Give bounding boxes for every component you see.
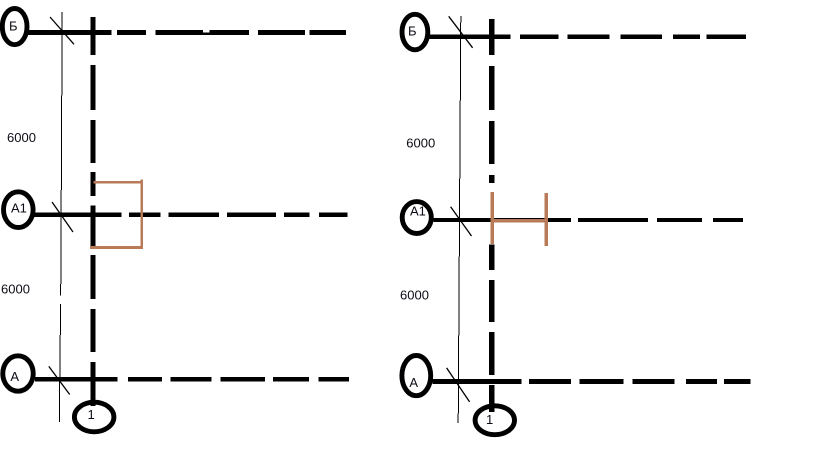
svg-text:А: А bbox=[10, 369, 19, 384]
svg-text:6000: 6000 bbox=[7, 130, 36, 145]
svg-text:6000: 6000 bbox=[1, 282, 30, 297]
svg-text:6000: 6000 bbox=[400, 287, 429, 302]
svg-text:А1: А1 bbox=[410, 204, 426, 219]
svg-text:1: 1 bbox=[486, 412, 493, 427]
svg-text:Б: Б bbox=[408, 24, 417, 39]
svg-text:Б: Б bbox=[9, 19, 18, 34]
svg-text:А: А bbox=[409, 375, 418, 390]
svg-text:6000: 6000 bbox=[406, 136, 435, 151]
svg-text:1: 1 bbox=[88, 407, 95, 422]
svg-text:А1: А1 bbox=[11, 201, 27, 216]
